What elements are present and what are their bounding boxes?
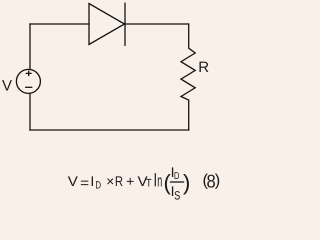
- wire left vertical lower: [29, 94, 31, 130]
- svg-text:R: R: [198, 59, 209, 76]
- svg-text:n: n: [157, 171, 162, 190]
- plus sign inside source: [26, 71, 31, 75]
- eq l of ln: [154, 173, 156, 186]
- minus sign inside source: [26, 86, 32, 88]
- diode D1 triangle: [89, 4, 125, 45]
- svg-text:): ): [215, 172, 221, 190]
- svg-text:R: R: [115, 173, 123, 189]
- svg-text:): ): [183, 170, 190, 195]
- equation: V = I_D ×R + V_T ln(I_D/I_S) (8): [68, 164, 220, 203]
- eq fraction bar: [170, 181, 184, 183]
- svg-text:V: V: [2, 77, 12, 94]
- svg-text:=: =: [80, 174, 89, 190]
- resistor R zigzag with leads: [181, 24, 195, 130]
- wire top-left: source to diode anode: [30, 23, 89, 25]
- wire left vertical upper: [29, 24, 31, 69]
- svg-text:I: I: [90, 173, 94, 189]
- wire bottom: [30, 129, 189, 131]
- voltage source V1 circle: [16, 69, 40, 93]
- svg-text:×: ×: [106, 173, 114, 189]
- svg-text:+: +: [126, 173, 134, 189]
- wire top-right: diode cathode to resistor: [125, 23, 189, 25]
- svg-text:V: V: [68, 173, 79, 189]
- svg-text:S: S: [174, 189, 180, 202]
- svg-text:T: T: [146, 178, 152, 190]
- svg-text:D: D: [95, 180, 101, 192]
- diode D1 cathode bar: [124, 3, 126, 45]
- svg-text:D: D: [174, 171, 180, 182]
